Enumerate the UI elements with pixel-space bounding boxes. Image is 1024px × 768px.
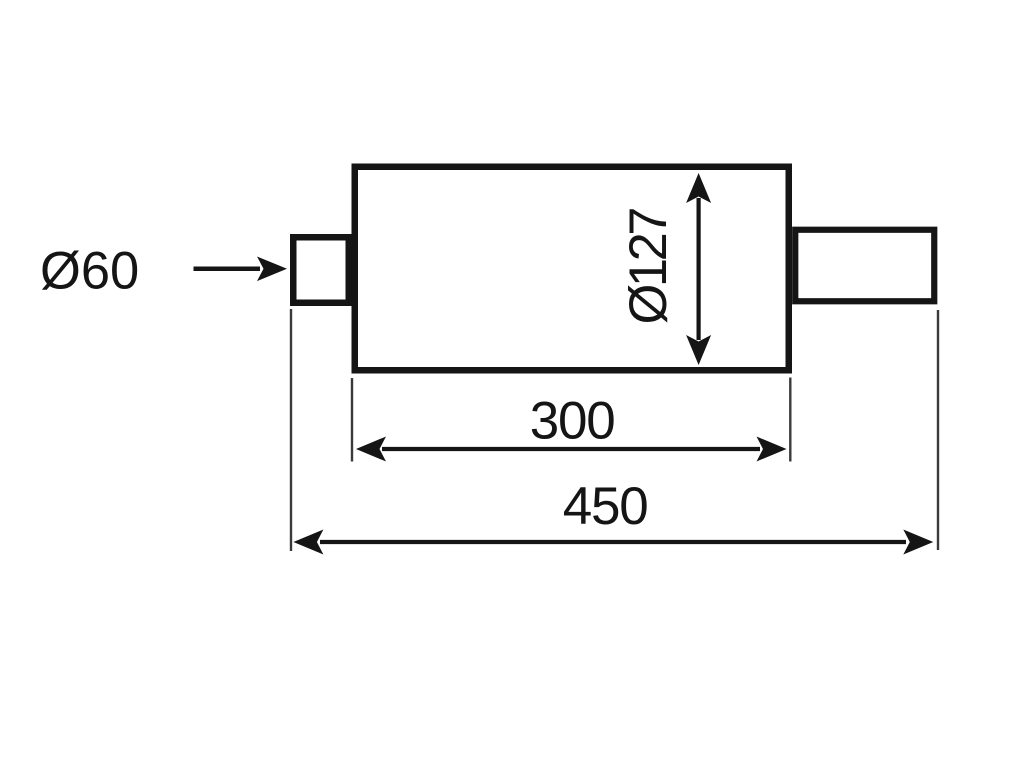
arrowhead right 450	[903, 530, 933, 555]
leader arrow for Ø60	[194, 267, 261, 272]
svg-text:Ø127: Ø127	[619, 207, 678, 325]
arrowhead right 300	[757, 437, 787, 462]
svg-text:Ø60: Ø60	[40, 242, 139, 301]
dimension line 300	[382, 447, 760, 451]
arrowhead left 300	[356, 437, 386, 462]
arrowhead down	[686, 335, 711, 365]
extension line right for 450	[937, 310, 939, 550]
muffler body rectangle	[355, 167, 789, 371]
extension line left for 450	[290, 309, 292, 551]
arrowhead up	[686, 173, 711, 203]
svg-text:450: 450	[563, 477, 649, 536]
inlet pipe (left)	[293, 237, 349, 303]
outlet pipe (right)	[795, 230, 934, 302]
extension line left for 300	[351, 378, 353, 462]
arrowhead left 450	[293, 530, 323, 555]
extension line right for 300	[789, 378, 791, 462]
vertical dimension line Ø127	[696, 198, 700, 340]
svg-text:300: 300	[530, 392, 616, 451]
dimension line 450	[320, 540, 906, 544]
